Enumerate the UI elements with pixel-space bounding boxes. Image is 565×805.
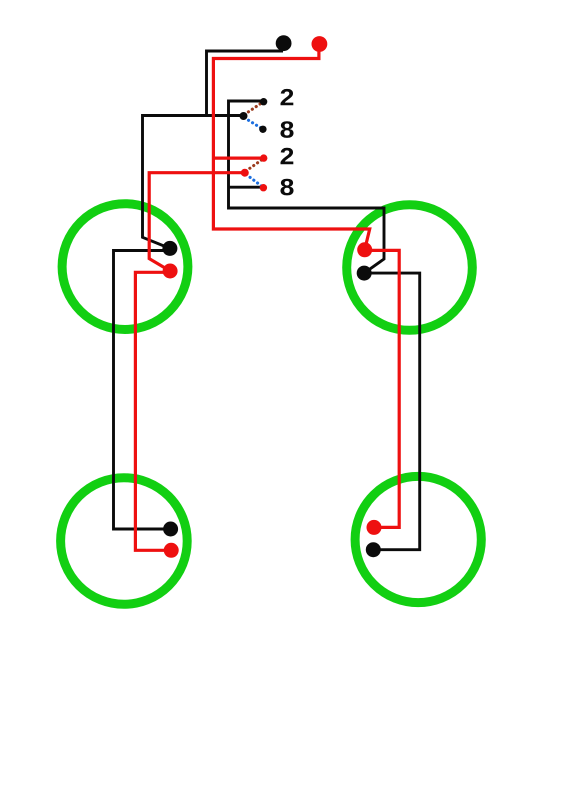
wire: red common feed, drop to SPK1 red terminal	[149, 173, 245, 271]
switch contact 8-ohm black	[259, 126, 266, 133]
SPK2 black terminal	[357, 266, 372, 281]
wire: SPK2 black terminal down to SPK4 black terminal	[364, 273, 420, 550]
switch common red	[241, 169, 249, 177]
dotted selector: red common to 2-ohm (brown)	[246, 160, 262, 172]
SPK3 black terminal	[163, 522, 178, 537]
switch contact 2-ohm red	[260, 154, 267, 161]
SPK2 red terminal	[357, 242, 372, 257]
label 8 ohm (black switch)	[280, 121, 293, 138]
dotted selector: red common to 8-ohm (blue)	[246, 175, 261, 187]
label 8 ohm (red switch)	[280, 179, 293, 196]
switch common black	[240, 112, 248, 120]
SPK1 red terminal	[163, 264, 178, 279]
speaker SPK4 (bottom-right green circle)	[355, 476, 481, 602]
speaker SPK2 (top-right green circle)	[347, 205, 473, 331]
label 2 ohm (red switch)	[281, 148, 294, 164]
wire: SPK1 black terminal down to SPK3 black terminal	[114, 251, 171, 530]
wire: black bus branch to red 8-ohm contact	[229, 186, 264, 189]
wire: amp red terminal down/left/down and across to SPK2 red terminal	[213, 48, 369, 250]
SPK3 red terminal	[164, 543, 179, 558]
wire: black bus from 2-ohm tap down past 8-ohm tap to SPK2 black terminal	[229, 101, 385, 273]
wire: black common horizontal, drop to SPK1 black terminal	[143, 116, 245, 249]
speaker SPK3 (bottom-left green circle)	[61, 478, 188, 605]
wire: amp black terminal to switch common feed	[207, 51, 284, 116]
SPK4 black terminal	[366, 542, 381, 557]
dotted selector: black common to 2-ohm (brown)	[245, 102, 263, 114]
switch contact 2-ohm black	[260, 98, 267, 105]
wire: SPK1 red terminal down to SPK3 red terminal	[135, 272, 171, 550]
label 2 ohm (black switch)	[281, 89, 294, 105]
dotted selector: black common to 8-ohm (blue)	[245, 118, 262, 129]
SPK1 black terminal	[162, 241, 177, 256]
switch contact 8-ohm red	[260, 184, 267, 191]
SPK4 red terminal	[367, 520, 382, 535]
amp negative terminal (black dot)	[276, 35, 292, 51]
wire: SPK2 red terminal down to SPK4 red terminal	[365, 250, 400, 527]
speaker SPK1 (top-left green circle)	[62, 204, 188, 330]
wire: red branch to red 2-ohm contact	[213, 157, 263, 160]
amp positive terminal (red dot)	[312, 36, 328, 52]
